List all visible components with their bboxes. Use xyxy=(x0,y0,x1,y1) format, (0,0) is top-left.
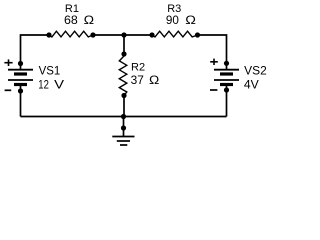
svg-text:R3: R3 xyxy=(167,3,181,15)
wire bottom rail xyxy=(21,116,227,118)
node dot ground pin xyxy=(121,125,126,130)
node dot VS2 plus pin xyxy=(224,61,229,66)
wire top-right segment xyxy=(198,35,227,63)
battery VS2 minus sign xyxy=(210,89,217,91)
wire middle vertical lower xyxy=(123,96,125,117)
node dot R2 bottom pin xyxy=(121,93,126,98)
node dot R2 top pin xyxy=(121,51,126,56)
svg-text:37: 37 xyxy=(131,75,144,87)
wire right vertical lower xyxy=(226,90,228,117)
svg-text:4V: 4V xyxy=(244,80,259,92)
svg-text:12: 12 xyxy=(38,80,49,92)
node dot VS2 minus pin xyxy=(224,87,229,92)
node dot VS1 minus pin xyxy=(18,88,23,93)
node dot top junction xyxy=(121,32,126,37)
svg-text:VS2: VS2 xyxy=(244,66,267,78)
wire left vertical lower xyxy=(20,91,22,117)
svg-text:R1: R1 xyxy=(65,3,79,15)
svg-text:Ω: Ω xyxy=(185,15,196,27)
wire top-left segment xyxy=(21,35,50,64)
wire middle vertical upper xyxy=(123,35,125,54)
ground xyxy=(112,137,134,146)
wire ground stub xyxy=(123,117,125,137)
svg-text:V: V xyxy=(54,80,64,92)
resistor R1 xyxy=(49,31,93,37)
battery VS2 plus sign xyxy=(210,59,218,65)
resistor R3 xyxy=(152,31,198,37)
resistor R2 xyxy=(119,54,127,96)
wire top-middle segment xyxy=(93,34,152,36)
svg-text:R2: R2 xyxy=(131,62,145,74)
node dot R1 right pin xyxy=(90,32,95,37)
svg-text:VS1: VS1 xyxy=(39,66,61,78)
svg-text:90: 90 xyxy=(166,15,179,27)
node dot R1 left pin xyxy=(46,32,51,37)
svg-text:Ω: Ω xyxy=(149,75,160,87)
svg-text:68: 68 xyxy=(64,15,78,27)
node dot R3 right pin xyxy=(195,32,200,37)
node dot bottom junction xyxy=(121,114,126,119)
node dot R3 left pin xyxy=(149,32,154,37)
battery VS1 xyxy=(8,64,33,92)
battery VS1 minus sign xyxy=(5,89,12,91)
battery VS1 plus sign xyxy=(4,59,12,66)
battery VS2 xyxy=(214,63,239,90)
node dot VS1 plus pin xyxy=(18,61,23,66)
svg-text:Ω: Ω xyxy=(84,15,95,27)
